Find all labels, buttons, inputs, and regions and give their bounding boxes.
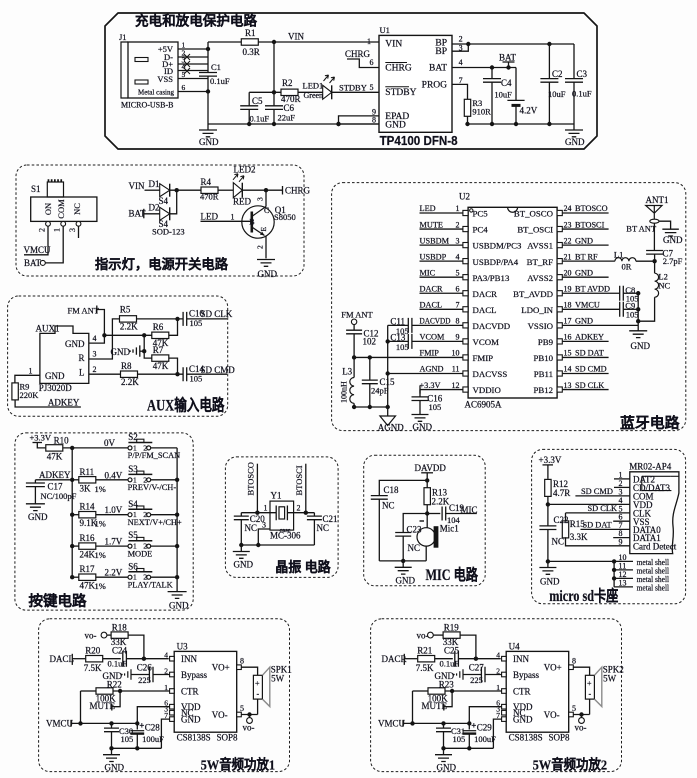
U2 right pin 21 BT_RF [557,259,562,264]
wire AUX1 pin1 to R9 [15,375,40,383]
U2 right pin 17 VSSIO [557,323,562,328]
wire R16 to switch [96,545,128,547]
wire J1 pin 5 [178,78,208,80]
junction FMIP-C12 [352,355,356,359]
svg-text:L: L [79,368,85,378]
junction VCOM [386,339,390,343]
junction rail L3 [352,405,356,409]
card top step line [671,475,679,477]
svg-text:2.2K: 2.2K [120,322,138,332]
wire R9 to ADKEY [15,400,81,407]
capacitor C4 [483,79,501,83]
resistor R3 [464,99,470,116]
svg-text:SD CMD: SD CMD [575,365,607,374]
svg-text:BAT: BAT [499,53,517,63]
svg-text:LED: LED [420,204,436,213]
junction rail C15 [368,405,372,409]
svg-text:SD CLK: SD CLK [588,504,618,513]
svg-text:7.5K: 7.5K [84,663,102,673]
junction DAVDD [425,478,429,482]
wire base LED [201,220,252,222]
terminal circle FM ANT [351,319,356,324]
svg-text:VO+: VO+ [544,663,562,673]
capacitor C3 [565,79,583,83]
svg-text:AGND: AGND [378,422,404,432]
svg-text:C17: C17 [48,481,64,491]
svg-text:1%: 1% [95,581,106,591]
speaker SPK2 5W [585,675,594,699]
wire MIC [420,276,463,278]
IC U4 CS8138S body [506,651,569,732]
capacitor C8 [620,286,624,301]
svg-text:6: 6 [456,284,460,293]
svg-text:SD DAT: SD DAT [583,521,612,530]
wire C24 to INN pin [126,658,168,660]
ground GND right [573,124,575,130]
svg-text:VO-: VO- [212,710,228,720]
capacitor C17 [26,483,45,487]
junction bus y514.7 [70,513,74,517]
wire VCOM left seg [388,340,409,342]
ground GND amp [103,755,120,762]
svg-text:D1: D1 [149,179,160,189]
svg-text:GND: GND [28,512,48,522]
svg-text:4: 4 [93,334,97,343]
DAVDD stub bar [421,472,433,474]
capacitor C16 [412,397,429,401]
wire to GND [240,545,242,552]
wire R2 to LED1 [298,91,323,93]
svg-text:7: 7 [459,76,463,85]
svg-text:2: 2 [459,35,463,44]
wire R12 to VDD [547,497,549,505]
wire VSS pin6 [613,520,630,522]
svg-text:C23: C23 [407,525,423,535]
svg-text:GND: GND [45,371,65,381]
svg-text:3K: 3K [80,483,92,493]
junction shell pin10 [612,559,616,563]
wire pin2 [287,512,314,514]
wire to C23 [403,514,427,533]
wire SD CLK to R15 [565,513,567,522]
resistor R15 [562,521,568,538]
overline CHRG [385,62,407,64]
block border: micro sd holder [532,449,686,603]
wire BT AVDD left seg [563,292,620,294]
wire C12 to L3 [353,334,355,378]
svg-text:5W: 5W [603,673,617,683]
capacitor C14 [183,367,187,381]
capacitor C5 [240,106,258,110]
wire S5 to gnd bus [151,545,177,547]
svg-text:E: E [259,227,268,232]
svg-text:C3: C3 [577,69,588,79]
junction gnd bus y577.2 [175,575,179,579]
svg-text:VDDIO: VDDIO [473,385,501,395]
svg-text:GND: GND [258,269,278,279]
wire D2 to junction [170,190,177,214]
svg-text:R6: R6 [153,322,164,332]
wire VCOM right seg [412,340,463,342]
svg-text:R23: R23 [439,679,455,689]
svg-text:ADKEY: ADKEY [575,333,604,342]
svg-text:NC: NC [317,523,330,533]
svg-text:R10: R10 [54,435,70,445]
U4 pin 3 NC [502,710,507,715]
connector MR02-AP4 body [630,472,679,554]
junction gnd-C22 [546,559,550,563]
wire +3.3V to R12 [547,465,549,479]
wire BP pin3 to pin2 [452,44,468,51]
svg-text:11: 11 [452,365,460,374]
no-connect marks on D-,D+,ID [184,54,190,74]
junction VIN node [272,40,276,44]
junction bus y447.9 [70,446,74,450]
wire C23 down [402,536,404,561]
wire to C2 [548,44,550,79]
wire S1 pin2 to VMCU [24,226,48,255]
wire gnd stub [140,350,144,352]
wire C20 down [240,520,242,545]
svg-text:MODE: MODE [128,549,153,558]
wire EPAD [339,116,380,124]
junction rail x338.5 [336,122,340,126]
svg-text:BT RF: BT RF [575,252,598,261]
svg-text:+: + [587,679,592,688]
junction VMCU-C30 [109,721,113,725]
wire BTOSCO [256,464,258,513]
capacitor C23 [395,533,411,537]
svg-text:COM: COM [56,199,66,219]
svg-text:BT_RF: BT_RF [527,257,554,267]
wire C18 down [378,499,380,561]
junction INN node [142,657,146,661]
capacitor C11 [408,318,412,333]
svg-text:SD CMD: SD CMD [201,365,236,375]
wire R22 to CTR [113,690,170,692]
svg-text:225: 225 [470,675,483,685]
svg-text:1.0V: 1.0V [105,505,123,515]
U2 pin 3 USBDM/PC3 [463,243,468,248]
svg-text:470R: 470R [200,192,219,202]
U2 pin 6 DACR [463,291,468,296]
junction rail C30 [109,746,113,750]
wire R7 to SD CMD node [169,358,178,374]
svg-text:17: 17 [564,317,572,326]
wire C5 to rail [248,109,250,124]
U2 right pin 14 PB11 [557,371,562,376]
wire SD CMD [563,373,609,375]
capacitor C2 [540,79,558,83]
wire to GND [547,561,549,567]
wire vo- to R18 [107,634,111,636]
terminal circle vo- [101,632,107,638]
svg-text:4: 4 [456,252,460,261]
wire FM ANT down [97,310,105,336]
svg-text:CHRG: CHRG [285,186,311,196]
wire BAT to D2 [144,213,160,215]
wire case pin3 [258,529,270,545]
svg-text:MC-306: MC-306 [270,530,301,540]
wire C6 to rail [273,109,275,124]
U2 pin 7 DACL [463,307,468,312]
resistor R13 [424,488,430,505]
svg-text:USBDM/PC3: USBDM/PC3 [473,241,522,251]
wire to GND [402,561,404,567]
svg-text:5: 5 [240,704,244,713]
junction VMCU-C31 [441,721,445,725]
svg-text:R19: R19 [444,622,460,632]
svg-text:S3: S3 [128,464,138,474]
junction R6 left [142,333,146,337]
capacitor C6 [265,106,283,110]
svg-text:R4: R4 [201,177,212,187]
svg-text:3.3K: 3.3K [570,532,588,542]
block border: 5W audio amp 5W音频功放1 [39,619,290,772]
wire DATA1 pin8 [613,537,630,539]
wire to vo- circle [249,715,251,718]
wire C28 down [136,735,138,749]
svg-text:R7: R7 [153,345,164,355]
svg-text:20: 20 [564,268,572,277]
svg-text:2: 2 [38,228,47,232]
inductor L3 100nH [350,378,354,404]
svg-text:GND: GND [181,714,201,724]
svg-text:102: 102 [363,337,377,347]
wire to C4 [491,68,493,79]
wire J1 pin 2 [178,56,208,58]
capacitor C30 [104,728,119,732]
svg-text:24: 24 [564,204,572,213]
svg-text:DACL: DACL [473,305,497,315]
wire PROG to R3 [452,84,468,99]
U2 pin 8 DACVDD [463,323,468,328]
wire gnd to C27 [463,674,481,676]
wire LED2 to CHRG [242,189,282,191]
VMCU stub bar [402,720,404,727]
wire +3.3V [420,389,463,391]
block border: charge and discharge protection circuit [105,13,597,149]
wire SD CMD out [187,373,227,375]
svg-text:C18: C18 [384,485,400,495]
svg-text:3: 3 [456,236,460,245]
svg-text:ANT1: ANT1 [646,195,669,205]
wire DACR [420,292,463,294]
wire gnd to C26 [131,674,149,676]
junction rail x516 [514,122,518,126]
wire VMCU left seg [563,308,620,310]
U3 pin 4 INN [170,656,175,661]
wire bus to R14 [72,514,79,516]
junction CTR node [450,689,454,693]
U2 pin 2 PC4 [463,226,468,231]
wire pin1 [241,512,276,514]
svg-text:0V: 0V [104,438,116,448]
wire to C20 [240,513,242,516]
junction AGND [386,371,390,375]
svg-text:3: 3 [68,228,77,232]
capacitor C21 [307,516,322,520]
svg-text:910R: 910R [472,107,491,117]
junction rail C23 [401,559,405,563]
wire DACVDD right seg [412,324,463,326]
wire GND pin17 [563,324,639,326]
svg-text:指示灯，电源开关电路: 指示灯，电源开关电路 [95,256,228,272]
svg-text:VO-: VO- [544,710,560,720]
svg-text:1: 1 [231,213,235,222]
capacitor C13 [408,334,412,349]
U2 notch [508,207,518,212]
svg-text:INN: INN [181,654,197,664]
DACR stub bar [403,654,405,665]
wire to C28 [136,723,138,729]
svg-text:C27: C27 [469,662,485,672]
svg-text:NC: NC [382,501,395,511]
block border: MIC circuit [364,455,486,586]
U3 pin 5 VO- [237,712,242,717]
resistor R7 [152,355,169,361]
wire metal shell pin 11 [614,569,633,571]
wire to C18 [379,480,427,495]
svg-text:CTR: CTR [181,686,199,696]
svg-text:4: 4 [459,58,463,67]
U2 right pin 19 BT_AVDD [557,291,562,296]
U2 pin 4 USBDP/PA4 [463,259,468,264]
U4 pin 1 CTR [502,689,507,694]
svg-text:VMCU: VMCU [575,301,600,310]
svg-text:U2: U2 [459,192,470,202]
svg-text:NC: NC [72,203,82,215]
wire C11/C13 to AGND rail [387,325,389,407]
wire to C17 [34,480,36,483]
svg-text:PROG: PROG [422,80,447,90]
junction LED2-Q1 [264,188,268,192]
wire R20 to C24 [103,658,121,660]
wire bus to R17 [72,576,79,578]
MUTE stub bar [111,704,113,711]
svg-text:4.7R: 4.7R [553,488,570,498]
svg-text:1.7V: 1.7V [105,537,123,547]
resistor R9 [12,383,18,400]
svg-text:MIC: MIC [420,268,436,277]
wire vo- to R19 [433,634,442,636]
wire SD CLK [563,389,609,391]
wire LED [420,212,463,214]
svg-text:4: 4 [164,651,168,660]
wire S1 pin3 stub [78,226,80,238]
svg-text:U4: U4 [509,641,520,651]
U2 right pin 24 BT_OSCO [557,210,562,215]
wire to GND [111,748,113,754]
switch S5 MODE [128,544,132,548]
FM ANT stub bar [96,306,98,314]
ground GND bluetooth [629,331,647,338]
wire battery to rail [515,105,517,124]
switch S6 PLAY/TALK [128,575,132,579]
svg-text:7.5K: 7.5K [416,663,434,673]
speaker SPK1 5W [253,675,262,699]
svg-text:5: 5 [572,704,576,713]
svg-text:105: 105 [396,342,409,352]
svg-text:BTOSCI: BTOSCI [294,465,304,495]
svg-text:BT ANT: BT ANT [626,224,657,234]
svg-text:LED1: LED1 [303,81,324,91]
wire ADKEY bus vertical [71,448,73,577]
junction CTR node [118,689,122,693]
svg-text:S4: S4 [159,196,169,206]
svg-text:VMCU: VMCU [46,719,74,729]
svg-text:R8: R8 [121,361,132,371]
svg-text:Metal casing: Metal casing [138,89,174,97]
junction bus y546.1 [70,544,74,548]
svg-text:PB10: PB10 [533,353,553,363]
resistor R5 [120,316,137,322]
svg-text:2.2V: 2.2V [105,568,123,578]
+3.3V stub bar [419,386,421,394]
svg-text:Card Detect: Card Detect [633,541,677,551]
wire R5 to C10 [137,318,184,320]
svg-text:USBDP/PA4: USBDP/PA4 [473,257,519,267]
wire DAVDD to R13 [426,473,428,488]
junction rail C28 [135,746,139,750]
wire BAT pin4 [452,67,516,69]
svg-text:0R: 0R [622,262,632,272]
svg-text:105: 105 [626,309,639,319]
svg-text:L3: L3 [342,367,352,377]
wire to C6 [273,92,275,106]
battery BT 4.2V [507,99,524,101]
wire R4 to LED2 [218,189,233,191]
wire C3 to rail [573,82,575,124]
svg-text:7: 7 [456,301,460,310]
svg-text:AVSS2: AVSS2 [527,273,553,283]
svg-text:C2: C2 [552,69,563,79]
wire RF node to L2 [654,261,656,273]
wire R11 to switch [96,479,128,481]
svg-text:+: + [471,720,476,730]
svg-text:AC6905A: AC6905A [465,400,503,410]
svg-text:4.2V: 4.2V [520,106,538,116]
svg-text:47K: 47K [80,581,96,591]
svg-text:5: 5 [182,70,186,79]
svg-text:C: C [264,206,269,215]
svg-text:GND: GND [413,422,433,432]
svg-text:ADKEY: ADKEY [48,397,80,407]
svg-text:105: 105 [453,734,466,744]
U4 pin 6 VDD [502,704,507,709]
block border: 5W audio amp 5W音频功放2 [371,619,622,772]
wire DACL [420,308,463,310]
resistor R19 [443,632,460,638]
wire BP pin2 net [452,43,574,45]
resistor R4 [201,187,218,193]
wire sd pin2 [614,486,630,488]
svg-text:BTOSCO: BTOSCO [575,204,608,213]
block border: AUX input circuit [8,296,228,416]
wire SD CLK pin5 [566,512,630,514]
svg-text:Mic1: Mic1 [440,524,459,534]
junction J1 pin1 [206,47,210,51]
wire AGND rail [354,406,388,408]
wire to C5 [248,92,250,106]
svg-text:VCOM: VCOM [473,337,500,347]
svg-text:-: - [589,690,592,699]
resistor R14 [79,512,96,518]
svg-text:GND: GND [631,341,651,351]
svg-text:18: 18 [564,301,572,310]
capacitor C29 electrolytic [462,730,476,732]
svg-text:5W音频功放1: 5W音频功放1 [201,757,276,774]
